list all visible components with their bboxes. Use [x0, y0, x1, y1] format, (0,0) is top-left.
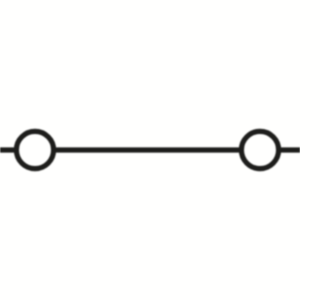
- terminal circle (left connection point): [16, 131, 53, 168]
- terminal circle (right connection point): [241, 131, 278, 168]
- wire: [0, 147, 35, 152]
- wire: [260, 147, 300, 152]
- wire: [35, 147, 260, 152]
